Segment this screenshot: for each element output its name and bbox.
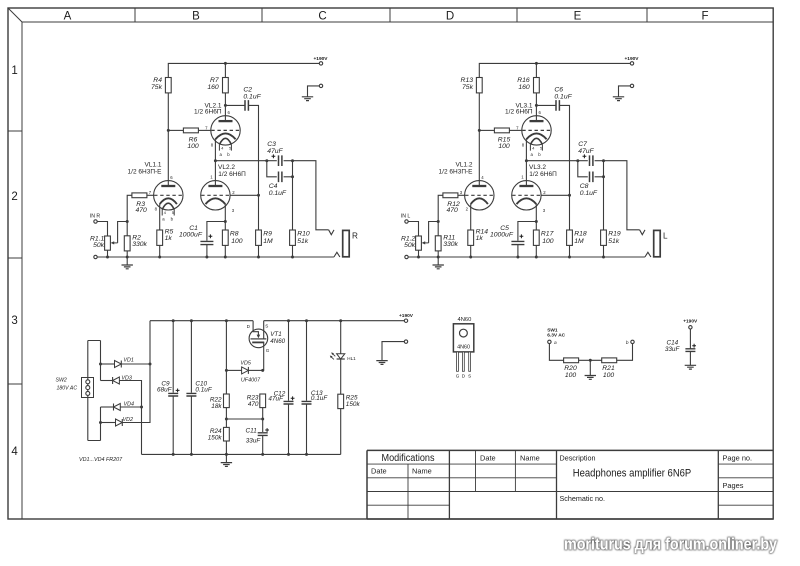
junction PSU bottom rail x=262.7 xyxy=(261,453,264,456)
svg-text:VL3.2: VL3.2 xyxy=(529,164,546,171)
LED HL1 xyxy=(330,352,356,361)
wire output to jack tip right channel xyxy=(604,161,640,230)
svg-text:1/2 6Н6П: 1/2 6Н6П xyxy=(194,108,222,115)
wire VD1 cathode to + line xyxy=(121,363,150,365)
svg-text:R10: R10 xyxy=(297,230,310,237)
ground symbol right channel xyxy=(433,265,444,269)
wire R2 bottom right channel xyxy=(437,251,439,257)
junction VL2 cathode / VL3 anode right channel xyxy=(525,159,528,162)
junction grid feed left channel xyxy=(257,194,260,197)
headphone jack R xyxy=(343,230,358,256)
svg-text:SW1: SW1 xyxy=(547,327,558,333)
wire R1 bottom right channel xyxy=(418,250,420,257)
svg-text:+190V: +190V xyxy=(683,318,698,324)
svg-text:50k: 50k xyxy=(93,242,105,249)
svg-text:Description: Description xyxy=(560,453,596,462)
svg-text:Name: Name xyxy=(412,467,432,476)
input terminal left channel xyxy=(90,213,101,223)
svg-text:5: 5 xyxy=(229,147,231,151)
wire R4 bottom to VL1 anode right channel xyxy=(478,93,480,186)
junction PSU B+ rail x=191.4 xyxy=(190,319,193,322)
wire R9 bottom right channel xyxy=(569,245,571,257)
junction divider node right xyxy=(261,418,264,421)
svg-text:R7: R7 xyxy=(210,77,219,84)
svg-text:0.1uF: 0.1uF xyxy=(243,93,261,100)
wire cathode node to C1 left channel xyxy=(207,222,225,241)
svg-text:150k: 150k xyxy=(346,401,361,408)
wire R22 top from rail xyxy=(225,321,227,394)
ground symbol upper left channel xyxy=(302,97,313,101)
triode VL2.1 upper half xyxy=(194,102,240,145)
wire VD4 cathode xyxy=(101,406,114,408)
wire anode node to C2 right channel xyxy=(536,104,556,106)
junction PSU bottom rail x=226.4 xyxy=(225,453,228,456)
svg-text:75k: 75k xyxy=(151,84,163,91)
svg-text:b: b xyxy=(626,340,629,346)
transistor VT1 4N60 xyxy=(247,321,286,371)
junction minus line at VD4 xyxy=(140,406,143,409)
pot wiper arrow right channel xyxy=(422,222,439,245)
PSU ground symbol xyxy=(221,463,232,467)
resistor R12 470 xyxy=(443,193,460,214)
title block label Modifications xyxy=(382,453,435,464)
svg-text:VD1...VD4 FR207: VD1...VD4 FR207 xyxy=(79,457,123,463)
svg-text:1/2 6Н3П-Е: 1/2 6Н3П-Е xyxy=(128,169,163,176)
wire ground rail right channel xyxy=(408,256,645,258)
jack tip contact right channel xyxy=(640,230,645,235)
wire R9 bottom left channel xyxy=(258,245,260,257)
svg-text:R16: R16 xyxy=(517,77,530,84)
resistor R14 1k xyxy=(468,229,488,246)
ground rail terminal right channel xyxy=(405,255,408,258)
wire B+ rail right channel xyxy=(479,63,630,77)
svg-text:Date: Date xyxy=(480,454,496,463)
junction ground rail at R8 left channel xyxy=(224,256,227,259)
wire terminal a to R20 xyxy=(549,344,563,361)
title block label Pages xyxy=(723,481,744,490)
wire R7 top left channel xyxy=(224,63,226,77)
wire R3 to VL1 grid left channel xyxy=(147,194,154,196)
svg-text:1/2 6Н6П: 1/2 6Н6П xyxy=(218,171,246,178)
title block label Date (column) xyxy=(480,454,496,463)
wire R24 bottom xyxy=(225,441,227,454)
triode VL1.1 input half xyxy=(128,162,183,210)
+190V terminal left channel xyxy=(313,56,328,65)
wire R10 bottom right channel xyxy=(603,245,605,257)
svg-text:R9: R9 xyxy=(263,230,272,237)
svg-text:330k: 330k xyxy=(443,241,458,248)
svg-text:L: L xyxy=(663,232,668,241)
potentiometer R1.2 50k xyxy=(401,235,421,250)
+190V terminal right channel xyxy=(624,56,639,65)
resistor R22 18k xyxy=(210,394,229,410)
svg-text:4: 4 xyxy=(11,446,18,458)
plus mark C9 xyxy=(176,389,180,393)
wire VD3 cathode xyxy=(101,380,113,382)
svg-text:2: 2 xyxy=(11,191,17,203)
resistor R13 75k xyxy=(461,77,483,93)
svg-text:5: 5 xyxy=(540,147,542,151)
svg-text:4N60: 4N60 xyxy=(457,317,471,323)
pin labels VL3.2 xyxy=(521,175,546,214)
4N60 package body xyxy=(453,324,473,352)
svg-text:33uF: 33uF xyxy=(246,437,262,444)
junction R2 top / wiper left channel xyxy=(126,220,129,223)
wire R20 to R21 xyxy=(579,359,602,361)
junction VL3 cathode left channel xyxy=(224,220,227,223)
title block grid xyxy=(367,450,773,519)
svg-text:R13: R13 xyxy=(461,77,474,84)
svg-text:R19: R19 xyxy=(608,230,621,237)
svg-text:47uF: 47uF xyxy=(267,148,283,155)
wire VL3 cathode lead right channel xyxy=(535,204,537,230)
junction divider node left xyxy=(225,418,228,421)
svg-text:6.3V AC: 6.3V AC xyxy=(547,333,565,339)
+190V terminal PSU xyxy=(399,313,414,322)
4N60 package pins xyxy=(457,352,471,371)
wire R10 bottom left channel xyxy=(292,245,294,257)
svg-text:G: G xyxy=(266,348,270,353)
capacitor C6 0.1uF xyxy=(554,87,572,111)
resistor R6 100 xyxy=(183,128,198,150)
plus mark C3 left channel xyxy=(272,154,276,158)
junction VL3 cathode right channel xyxy=(535,220,538,223)
resistor R4 75k xyxy=(151,77,171,93)
capacitor C11 33uF xyxy=(246,427,268,444)
svg-text:IN R: IN R xyxy=(90,213,101,219)
wire VL1 anode node to R6 left channel xyxy=(168,129,183,131)
svg-text:G: G xyxy=(456,374,460,379)
junction ground rail at R2 left channel xyxy=(126,256,129,259)
wire VL3 grid lead right channel xyxy=(541,194,569,196)
wire ground rail left channel xyxy=(97,256,334,258)
svg-text:+190V: +190V xyxy=(399,313,414,319)
junction PSU bottom rail x=173.2 xyxy=(172,453,175,456)
wire VL3 anode lead right channel xyxy=(525,161,527,186)
wire VL2 cathode to output node right channel xyxy=(526,139,577,161)
svg-text:VL2.2: VL2.2 xyxy=(218,164,235,171)
wire R3 left down to wiper node right channel xyxy=(438,195,443,221)
svg-text:18k: 18k xyxy=(211,403,222,410)
triode VL3.1 upper half xyxy=(505,102,551,145)
svg-text:1k: 1k xyxy=(476,235,484,242)
wire C3 right right channel xyxy=(595,160,604,162)
svg-text:68uF: 68uF xyxy=(157,387,173,394)
wire C1 bottom right channel xyxy=(517,245,519,257)
wire cathode node to C1 right channel xyxy=(518,222,536,241)
resistor R21 100 xyxy=(602,358,617,379)
junction ground rail at R5 left channel xyxy=(158,256,161,259)
svg-text:Date: Date xyxy=(371,467,387,476)
resistor R18 1M xyxy=(567,230,587,245)
svg-text:R18: R18 xyxy=(574,230,587,237)
diode VD5 UF4007 xyxy=(240,361,261,384)
heater stubs VL3.1 xyxy=(530,138,542,150)
terminal a SW1 xyxy=(548,340,557,346)
svg-text:47uF: 47uF xyxy=(578,148,594,155)
svg-text:S: S xyxy=(265,324,268,329)
svg-text:E: E xyxy=(574,11,582,23)
junction PSU bottom rail x=191.4 xyxy=(190,453,193,456)
pin labels VL1.1 xyxy=(149,175,173,212)
wire VL3 anode lead left channel xyxy=(214,161,216,186)
wire C14 top xyxy=(689,329,691,349)
svg-text:VD1: VD1 xyxy=(123,358,133,364)
svg-text:VD2: VD2 xyxy=(123,417,134,423)
resistor R24 150k xyxy=(208,427,230,441)
diode VD3 xyxy=(113,376,132,384)
svg-text:470: 470 xyxy=(248,401,259,408)
svg-text:47uF: 47uF xyxy=(268,396,284,403)
capacitor C12 47uF xyxy=(268,390,293,404)
wire VD5 left xyxy=(226,369,241,371)
wire R7 bottom to VL2 anode right channel xyxy=(535,93,537,121)
wire R1 bottom left channel xyxy=(107,250,109,257)
resistor R2 330k xyxy=(124,235,147,251)
title block title text xyxy=(573,467,692,479)
junction ground rail at R11 right channel xyxy=(437,256,440,259)
ground terminal left channel xyxy=(308,84,323,96)
svg-text:1: 1 xyxy=(11,65,17,77)
wire R7 top right channel xyxy=(535,63,537,77)
+190V terminal C14 xyxy=(683,318,698,329)
node VL1 anode junction left channel xyxy=(167,129,170,132)
junction output node at C3 right channel xyxy=(576,159,579,162)
svg-text:VD5: VD5 xyxy=(240,361,251,367)
potentiometer R1.1 50k xyxy=(90,235,110,250)
junction PSU B+ rail x=340.7 xyxy=(339,319,342,322)
triode VL2.2 lower half xyxy=(201,164,246,210)
svg-text:100: 100 xyxy=(542,238,554,245)
junction ground rail at R19 right channel xyxy=(602,256,605,259)
junction ground rail at R18 right channel xyxy=(568,256,571,259)
wire R4 bottom to VL1 anode left channel xyxy=(167,93,169,186)
wire R24 top xyxy=(225,419,227,427)
wire C10 bottom xyxy=(190,396,192,454)
wire R5 bottom right channel xyxy=(470,245,472,257)
svg-text:0.1uF: 0.1uF xyxy=(269,190,287,197)
svg-text:5: 5 xyxy=(172,211,174,215)
svg-text:180V AC: 180V AC xyxy=(57,386,78,392)
wire C11 top xyxy=(262,419,264,432)
svg-text:D: D xyxy=(446,11,454,23)
capacitor C9 68uF xyxy=(157,381,178,396)
junction ground rail at C5 right channel xyxy=(516,256,519,259)
wire C2 to grid feed line left channel xyxy=(248,105,258,230)
ground terminal right channel xyxy=(619,84,634,96)
svg-text:1000uF: 1000uF xyxy=(179,232,203,239)
svg-text:+190V: +190V xyxy=(624,56,639,62)
svg-text:100: 100 xyxy=(498,143,510,150)
resistor R23 470 xyxy=(247,394,266,408)
svg-text:R17: R17 xyxy=(541,230,554,237)
wire VD1 anode xyxy=(101,363,115,365)
capacitor C8 0.1uF xyxy=(580,172,598,198)
wire C9 top xyxy=(172,321,174,393)
junction C4 right left channel xyxy=(291,175,294,178)
wire C4 right right channel xyxy=(595,176,604,178)
svg-text:R21: R21 xyxy=(602,365,615,372)
input terminal right channel xyxy=(401,213,411,223)
resistor R7 160 xyxy=(207,77,228,93)
diode VD2 xyxy=(116,417,134,426)
title block label Schematic no. xyxy=(560,494,606,503)
svg-text:470: 470 xyxy=(136,207,148,214)
capacitor C5 1000uF xyxy=(490,225,524,244)
svg-text:4N60: 4N60 xyxy=(270,338,285,345)
wire R2 top right channel xyxy=(437,222,439,236)
resistor R16 160 xyxy=(517,77,539,93)
junction heater center tap xyxy=(589,359,592,362)
wire PSU B+ rail right segment xyxy=(264,320,405,322)
svg-text:R4: R4 xyxy=(153,77,162,84)
watermark forum text xyxy=(564,535,778,553)
svg-text:1k: 1k xyxy=(165,235,173,242)
wire HL1 top xyxy=(340,321,342,354)
junction VD5 right / gate xyxy=(261,369,264,372)
ground symbol left channel xyxy=(122,265,133,269)
svg-text:330k: 330k xyxy=(132,241,147,248)
wire VL2 cathode to output node left channel xyxy=(215,139,266,161)
svg-text:S: S xyxy=(468,374,471,379)
label VD1...VD4 FR207 xyxy=(79,457,123,463)
resistor R15 100 xyxy=(494,128,510,150)
junction AC2 at VD2 xyxy=(99,421,102,424)
svg-text:1M: 1M xyxy=(263,238,273,245)
svg-text:SW2: SW2 xyxy=(56,377,67,383)
pin labels VL1.2 xyxy=(460,175,484,212)
wire output to R10 left channel xyxy=(292,161,294,230)
wire VD3 anode to minus line xyxy=(119,381,141,455)
svg-text:Headphones amplifier 6N6P: Headphones amplifier 6N6P xyxy=(573,467,692,479)
terminal b SW1 xyxy=(626,340,634,346)
resistor R20 100 xyxy=(564,358,579,379)
wire R22 bottom xyxy=(225,408,227,419)
wire C2 to grid feed line right channel xyxy=(559,105,569,230)
svg-text:160: 160 xyxy=(207,84,219,91)
wire R2 bottom left channel xyxy=(126,251,128,257)
PSU ground symbol right xyxy=(376,361,387,365)
wire C4 left branch right channel xyxy=(578,161,588,177)
wire R6 to VL2 grid right channel xyxy=(509,129,522,131)
diode VD1 xyxy=(115,358,134,368)
jack sleeve contact right channel xyxy=(645,252,651,257)
svg-text:150k: 150k xyxy=(208,435,223,442)
svg-text:75k: 75k xyxy=(462,84,474,91)
resistor R25 150k xyxy=(338,394,361,408)
svg-text:UF4007: UF4007 xyxy=(241,377,261,383)
junction ground rail at R17 right channel xyxy=(535,256,538,259)
wire PSU B+ rail left segment xyxy=(150,320,253,322)
svg-text:Modifications: Modifications xyxy=(382,453,435,464)
resistor R11 330k xyxy=(435,235,458,251)
node VL2 anode junction right channel xyxy=(535,104,538,107)
svg-text:HL1: HL1 xyxy=(347,356,356,361)
svg-text:B: B xyxy=(192,11,200,23)
junction C4 right right channel xyxy=(602,175,605,178)
diode VD4 xyxy=(114,401,135,410)
ground symbol C14 xyxy=(685,365,696,369)
ground symbol upper right channel xyxy=(613,97,624,101)
ground symbol stub right channel xyxy=(437,257,439,265)
triode VL1.2 input half xyxy=(439,162,494,210)
wire output to R10 right channel xyxy=(603,161,605,230)
wire R25 bottom xyxy=(340,409,342,455)
wire VD2 anode xyxy=(101,422,116,424)
wire VD2 cathode to + line xyxy=(122,321,150,423)
heater stubs VL1.1 xyxy=(162,203,174,215)
wire R3 to VL1 grid right channel xyxy=(458,194,465,196)
wire R2 top left channel xyxy=(126,222,128,236)
svg-text:0.1uF: 0.1uF xyxy=(195,387,212,394)
wire C13 bottom xyxy=(306,404,308,454)
ground symbol stub left channel xyxy=(126,257,128,265)
junction ground rail at R10 left channel xyxy=(291,256,294,259)
svg-text:33uF: 33uF xyxy=(665,346,681,353)
wire C1 bottom left channel xyxy=(206,245,208,257)
capacitor C1 1000uF xyxy=(179,225,213,244)
wire VL1 cathode to R5 right channel xyxy=(470,204,472,230)
plus mark C11 xyxy=(265,428,269,432)
ground symbol heater xyxy=(585,376,596,380)
junction on B+ rail at R-anode right channel xyxy=(535,62,538,65)
resistor R10 51k xyxy=(290,230,310,245)
junction PSU bottom rail x=288.5 xyxy=(287,453,290,456)
title block label Page no. xyxy=(723,454,753,463)
wire R7 bottom to VL2 anode left channel xyxy=(224,93,226,121)
wire R8 bottom right channel xyxy=(535,245,537,257)
4N60 package label xyxy=(457,317,471,323)
svg-text:4: 4 xyxy=(532,147,534,151)
capacitor C3 47uF xyxy=(267,141,283,166)
pin labels VL3.1 xyxy=(516,110,542,157)
heater pin labels VL1.1 xyxy=(162,211,174,222)
junction ground rail at R1.2 right channel xyxy=(417,256,420,259)
junction AC1 at VD1 xyxy=(99,363,102,366)
wire R8 bottom left channel xyxy=(224,245,226,257)
svg-text:C11: C11 xyxy=(246,427,258,434)
junction PSU B+ rail x=173.2 xyxy=(172,319,175,322)
pot wiper arrow left channel xyxy=(111,222,128,245)
svg-text:160: 160 xyxy=(518,84,530,91)
wire VL3 cathode lead left channel xyxy=(224,204,226,230)
wire C13 top xyxy=(306,321,308,401)
svg-text:C: C xyxy=(318,11,326,23)
wire output to jack tip left channel xyxy=(293,161,329,230)
wire VD5 right xyxy=(248,369,262,371)
capacitor C7 47uF xyxy=(578,141,594,166)
svg-text:R8: R8 xyxy=(230,230,239,237)
svg-text:50k: 50k xyxy=(404,242,416,249)
svg-text:4: 4 xyxy=(221,147,223,151)
title block label Name (column) xyxy=(520,454,540,463)
svg-text:Name: Name xyxy=(520,454,540,463)
svg-text:4: 4 xyxy=(164,211,166,215)
svg-text:+190V: +190V xyxy=(313,56,328,62)
svg-text:R20: R20 xyxy=(564,365,577,372)
svg-text:100: 100 xyxy=(187,143,199,150)
resistor R19 51k xyxy=(601,230,621,245)
svg-text:100: 100 xyxy=(231,238,243,245)
resistor R17 100 xyxy=(533,230,553,245)
wire R5 bottom left channel xyxy=(159,245,161,257)
wire C10 top xyxy=(190,321,192,393)
svg-text:51k: 51k xyxy=(608,238,620,245)
svg-text:0.1uF: 0.1uF xyxy=(554,93,572,100)
junction on B+ rail at R-anode left channel xyxy=(224,62,227,65)
column letters A-F xyxy=(64,11,709,23)
title block label Date (modifications) xyxy=(371,467,387,476)
